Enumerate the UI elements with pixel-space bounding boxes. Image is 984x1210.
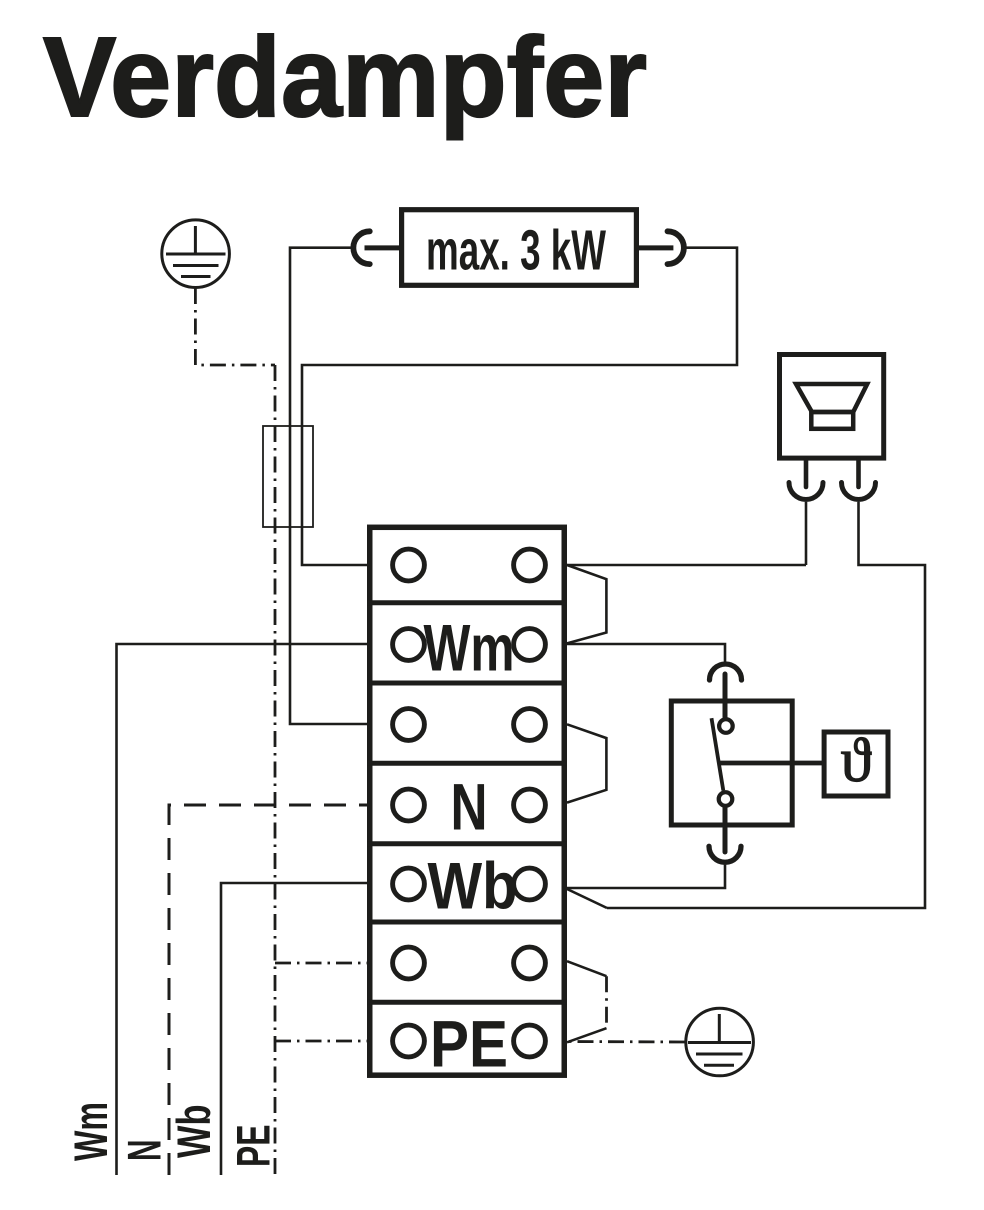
svg-text:ϑ: ϑ — [841, 727, 872, 795]
svg-text:PE: PE — [430, 1007, 508, 1081]
connector socket left of heater — [353, 231, 369, 264]
switch bottom socket — [709, 846, 741, 862]
wire fan right socket down to Wb — [607, 502, 925, 908]
heater box max. 3 kW — [402, 210, 637, 286]
svg-text:N: N — [119, 1140, 172, 1162]
connector socket right of heater — [668, 231, 684, 264]
terminal circles row 7 PE — [393, 1025, 425, 1057]
terminal circles row 3 — [393, 709, 425, 741]
wire heater right loop to terminal row 1 — [302, 248, 737, 565]
earth symbol PE (bottom right) — [686, 1008, 754, 1076]
wire heater left to terminal row 3 — [290, 248, 367, 724]
svg-text:Wm: Wm — [424, 611, 515, 685]
wire PE dash-dot to earth symbol bottom right — [567, 1040, 685, 1043]
connector pin right of heater — [638, 245, 673, 250]
fan pin right — [856, 459, 861, 487]
terminal block outline — [370, 527, 565, 1075]
terminal circles row 1 — [393, 549, 546, 1057]
wire terminal row 1 to fan left socket — [567, 564, 806, 567]
switch bottom pin — [723, 808, 728, 853]
wire switch to thermostat — [720, 761, 822, 766]
wire fan left socket down — [805, 502, 808, 565]
thermostat box — [824, 732, 888, 796]
terminal row separators — [367, 603, 567, 1003]
earth symbol PE (top left) — [162, 220, 230, 288]
cable sheath rectangle — [263, 426, 313, 527]
fan box — [780, 355, 884, 459]
svg-text:N: N — [451, 770, 488, 844]
svg-text:max. 3 kW: max. 3 kW — [426, 219, 606, 283]
svg-text:Verdampfer: Verdampfer — [43, 14, 647, 140]
jumper link rows 6-7 (dash-dot) — [567, 961, 607, 976]
fan socket right — [842, 483, 876, 500]
wire switch bottom to terminal row 5 Wb — [567, 865, 725, 888]
switch S1 box — [671, 701, 792, 825]
fan socket left — [789, 483, 823, 500]
terminal circles row 5 Wb — [393, 868, 425, 900]
svg-text:Wb: Wb — [168, 1105, 221, 1159]
wire terminal row 2 to switch top — [567, 644, 725, 662]
wire diagonal into Wb terminal — [567, 889, 607, 908]
jumper link rows 3-4 — [567, 724, 606, 802]
terminal circles row 6 — [393, 947, 425, 979]
wire Wb from bottom left — [221, 883, 367, 1175]
wire N dashed from bottom left — [169, 805, 367, 1175]
connector pin left of heater — [365, 245, 401, 250]
switch top socket — [710, 664, 742, 680]
svg-text:Wb: Wb — [428, 849, 518, 923]
wire PE dash-dot vertical main run — [274, 365, 277, 1175]
jumper link rows 1-2 — [567, 565, 606, 643]
switch top pin — [723, 674, 728, 717]
fan pin left — [804, 459, 809, 487]
switch contact bottom — [719, 792, 733, 806]
terminal circles row 2 Wm — [393, 629, 425, 661]
switch contact top — [719, 719, 733, 733]
svg-text:PE: PE — [228, 1125, 281, 1168]
wire PE branch to terminal row 7 PE — [275, 1040, 367, 1043]
terminal circles row 4 N — [393, 789, 425, 821]
wire Wm from bottom left — [117, 644, 368, 1175]
wire PE dash-dot from earth symbol down and right — [195, 288, 275, 365]
svg-text:Wm: Wm — [65, 1102, 118, 1161]
switch lever — [712, 718, 724, 790]
fan symbol (trapezoid + rect) — [796, 384, 867, 429]
wire PE branch to terminal row 6 — [275, 962, 367, 965]
